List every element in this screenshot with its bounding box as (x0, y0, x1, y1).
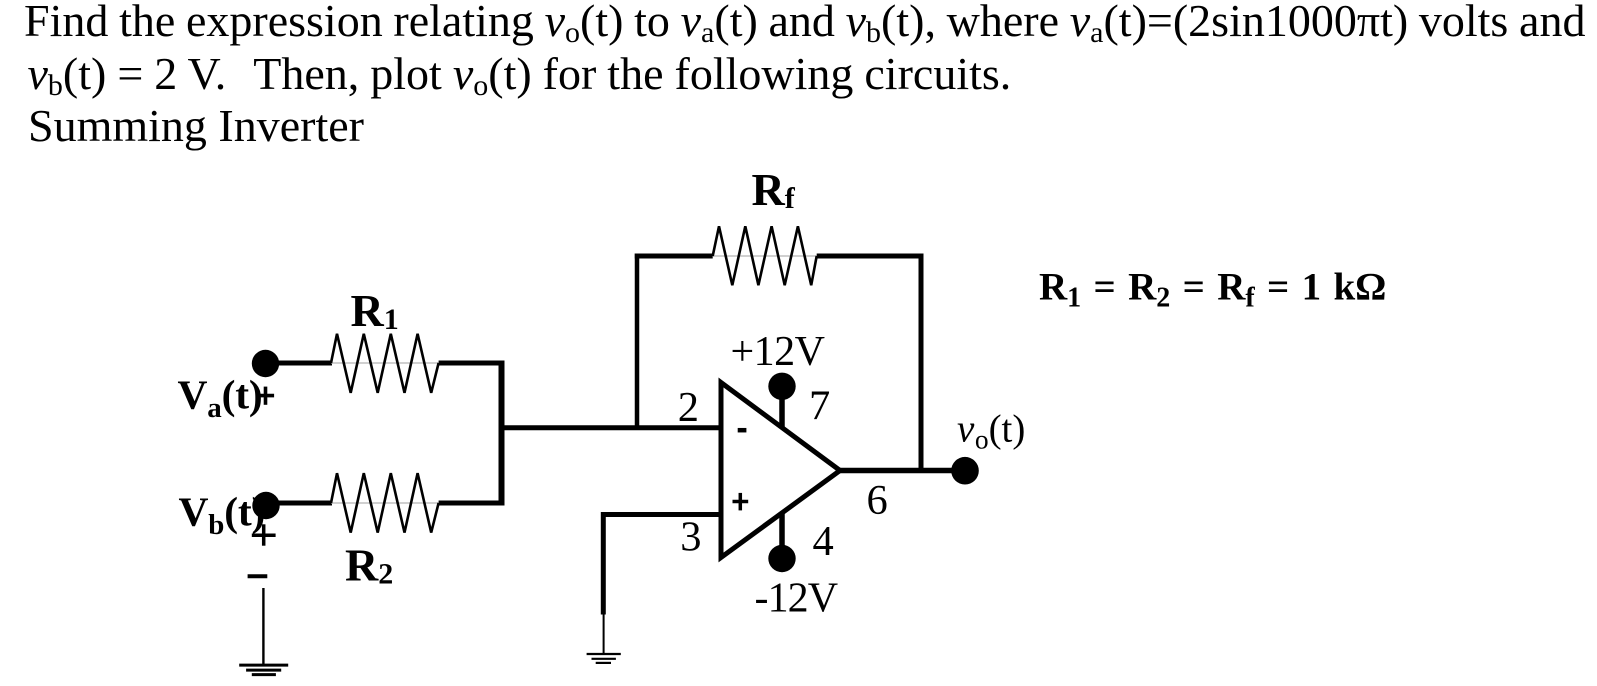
svg-text:R1 = R2 = Rf = 1 kΩ: R1 = R2 = Rf = 1 kΩ (1039, 265, 1386, 313)
ground under Vb source (239, 665, 288, 675)
wire feedback left vertical (635, 254, 640, 428)
svg-text:R2: R2 (345, 540, 393, 591)
label Va(t)+ (178, 372, 263, 425)
wire Vb source ground lead (262, 588, 264, 665)
svg-text:3: 3 (680, 514, 701, 561)
wire R2 to vertical junction (439, 501, 505, 506)
label pin 2 (678, 384, 699, 431)
label pin 7 (809, 382, 830, 429)
label +12V (731, 329, 825, 375)
op-amp U1 (721, 383, 840, 558)
label Vb(t) (179, 489, 266, 542)
wire op-amp pin 4 stub (779, 513, 785, 547)
label pin 6 (867, 477, 888, 524)
svg-text:R1: R1 (351, 285, 399, 336)
label pin 3 (680, 514, 701, 561)
node vo(t) output dot (951, 457, 979, 485)
node Va terminal dot (252, 350, 279, 377)
wire non-inverting input pin 3 (601, 512, 721, 517)
wire op-amp pin 7 stub (779, 398, 785, 429)
label R2 (345, 540, 393, 591)
ground under pin 3 (587, 654, 621, 663)
resistor R2 (331, 473, 439, 532)
node Vb terminal dot (252, 492, 279, 519)
svg-text:vo(t): vo(t) (957, 407, 1025, 454)
wire Vb to R2 (266, 501, 332, 506)
polarity minus of Vb source (248, 574, 268, 578)
label pin 4 (813, 518, 834, 565)
resistor Rf (713, 226, 817, 285)
label -12V (755, 575, 838, 621)
wire Va to R1 (265, 361, 332, 366)
wire R1 to vertical junction (439, 361, 505, 366)
node -12V supply dot pin 4 (768, 545, 795, 572)
wire feedback top right (817, 254, 924, 259)
svg-text:7: 7 (809, 382, 830, 429)
op-amp non-inverting input plus sign (733, 493, 749, 511)
wire feedback top left (635, 254, 713, 259)
wire vertical joining R1 and R2 outputs (499, 361, 505, 506)
svg-text:2: 2 (678, 384, 699, 431)
resistor R1 (331, 334, 439, 393)
label Rf (752, 164, 796, 215)
label vo(t) (957, 407, 1025, 454)
svg-text:4: 4 (813, 518, 834, 565)
node +12V supply dot pin 7 (768, 373, 795, 400)
wire op-amp output (838, 468, 963, 474)
svg-text:-12V: -12V (755, 575, 838, 621)
polarity plus of Vb source (252, 524, 276, 545)
polarity plus of Va source (257, 387, 274, 405)
svg-text:6: 6 (867, 477, 888, 524)
svg-text:Vb(t): Vb(t) (179, 489, 266, 542)
wire pin 3 ground lead thin (603, 615, 605, 655)
wire feedback right vertical (919, 254, 924, 471)
svg-text:+12V: +12V (731, 329, 825, 375)
wire junction to op-amp inverting input (499, 425, 722, 430)
svg-text:Rf: Rf (752, 164, 796, 215)
op-amp inverting input minus sign (738, 428, 747, 433)
wire pin 3 down vertical thick (601, 512, 606, 615)
label R1 (351, 285, 399, 336)
svg-text:Va(t): Va(t) (178, 372, 263, 425)
label R1 = R2 = Rf = 1 kOhm (1039, 265, 1386, 313)
